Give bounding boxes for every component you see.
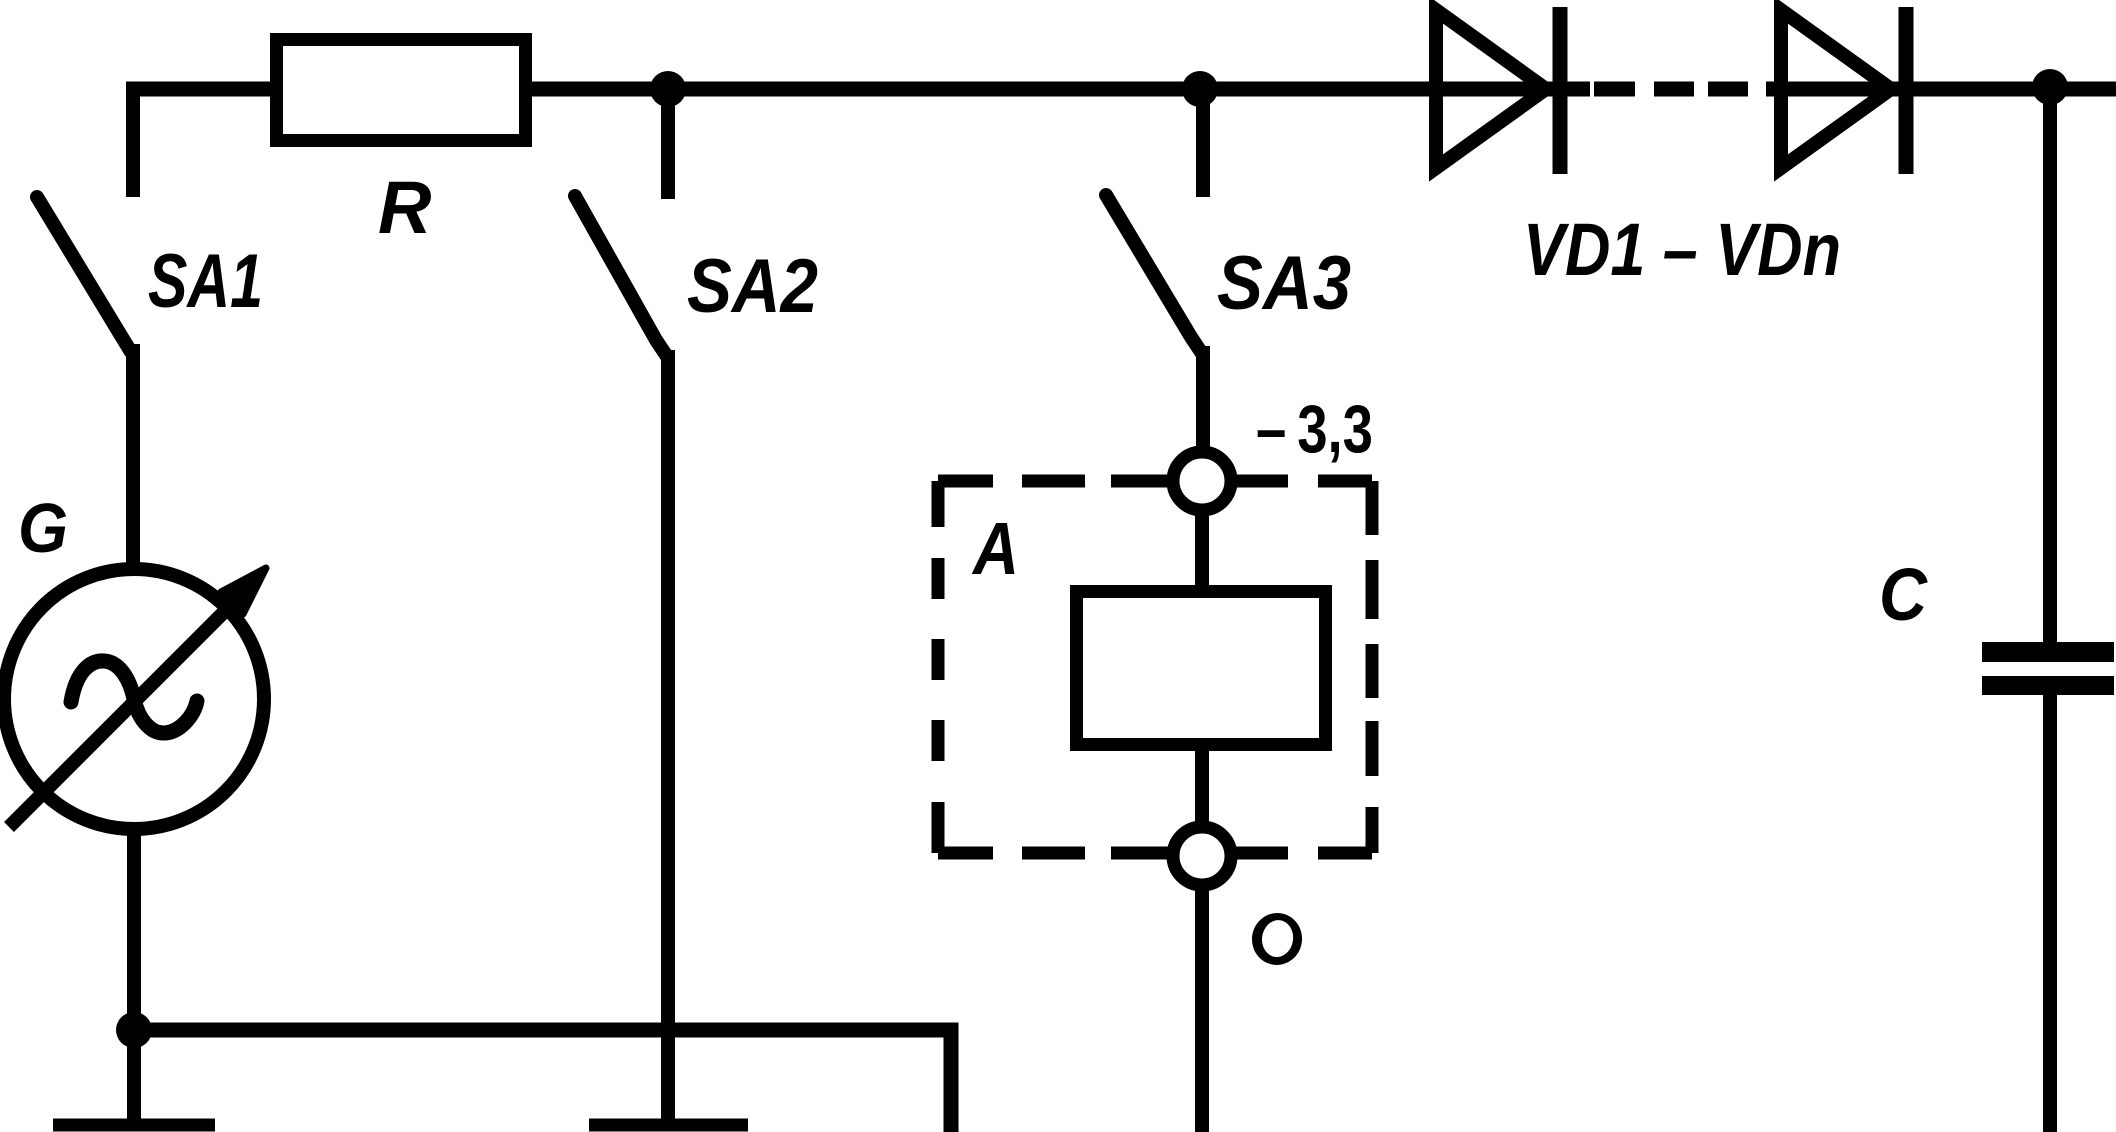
wire bottom bus with corner down (134, 1030, 951, 1132)
wire top bus from diode VDn to right edge (1766, 82, 2116, 97)
wire terminal O to bottom edge (1195, 884, 1209, 1132)
wire terminal to block (1195, 510, 1209, 592)
svg-text:SA1: SA1 (148, 239, 263, 324)
junction node at C (2032, 69, 2068, 105)
wire top bus from SA1 corner to resistor (126, 82, 274, 97)
resistor R (277, 40, 526, 141)
wire SA3 to terminal (1196, 346, 1210, 450)
switch SA2 (575, 84, 668, 358)
capacitor C top plate (1982, 642, 2114, 662)
wire junction to capacitor C (2043, 89, 2057, 644)
svg-text:SA3: SA3 (1217, 241, 1351, 326)
svg-text:VD1 – VDn: VD1 – VDn (1523, 208, 1841, 291)
svg-text:– 3,3: – 3,3 (1256, 391, 1373, 467)
generator G (4, 568, 266, 829)
svg-text:C: C (1879, 553, 1928, 636)
switch SA1 (37, 84, 133, 352)
wire dashed segment between VD1 and VDn (1594, 82, 1748, 97)
dashed box A right edge (1366, 481, 1379, 853)
wire SA2 to ground (661, 350, 675, 1120)
block inside box A (1077, 592, 1326, 745)
dashed box A bottom edge (938, 847, 1372, 860)
svg-text:SA2: SA2 (687, 244, 818, 329)
capacitor C bottom plate (1982, 676, 2114, 695)
diode VD1 (1436, 7, 1560, 174)
wire generator G to bottom junction (127, 829, 141, 1030)
junction node at SA2 (650, 71, 686, 107)
diode VDn (1781, 7, 1906, 174)
svg-text:R: R (378, 166, 431, 249)
svg-text:G: G (18, 489, 68, 567)
ground below SA2 (589, 1119, 748, 1132)
terminal node O (1173, 827, 1231, 885)
label O (1249, 910, 1306, 968)
dashed box A left edge (932, 481, 945, 853)
terminal node -3,3 (1173, 452, 1231, 510)
svg-text:A: A (971, 507, 1019, 590)
junction node below G (116, 1012, 152, 1048)
wire junction to ground (127, 1030, 141, 1120)
wire block to terminal O (1195, 745, 1209, 830)
wire top bus from resistor to diode VD1 (532, 82, 1590, 97)
junction node at SA3 (1182, 71, 1218, 107)
ground below G (53, 1119, 215, 1132)
wire capacitor C to bottom edge (2043, 693, 2057, 1132)
switch SA3 (1106, 84, 1203, 355)
wire SA1 to generator G (126, 344, 140, 571)
dashed box A top edge (938, 475, 1372, 488)
